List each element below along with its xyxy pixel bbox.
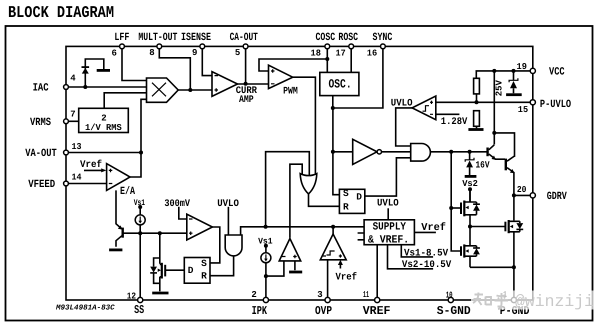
svg-text:3: 3 (317, 290, 322, 300)
svg-text:VFEED: VFEED (28, 179, 55, 191)
svg-text:14: 14 (72, 173, 83, 183)
transistor M2 n-channel (lower totem) (460, 246, 462, 256)
ground symbol under 25V zener (506, 93, 522, 96)
svg-text:1.28V: 1.28V (441, 117, 468, 128)
transistor T1 NPN driver (486, 148, 488, 157)
block: SUPPLY & VREF (364, 220, 414, 245)
wire: M1 source node to M3 gate (470, 226, 505, 228)
wire: IPK comparator minus input to pin rail (266, 261, 284, 276)
wire: divider mid to P-UVLO line (476, 94, 478, 102)
IC boundary box (66, 46, 533, 300)
pin 13 VA-OUT (64, 150, 69, 155)
zener DZ2 16V (cathode up) (466, 161, 473, 168)
wire: VRMS pin to 1/V RMS box (66, 120, 79, 122)
wire: latch2 output to AND gate input 3 (365, 158, 411, 196)
body diode of M4 (cathode down) (150, 267, 157, 273)
wire: M4 drain from SS rail (159, 233, 161, 258)
svg-text:5: 5 (235, 48, 240, 58)
node: junction gate-drive branch (449, 150, 453, 154)
svg-text:VCC: VCC (549, 66, 565, 78)
wire: gate drive vertical to M1 and M2 gates (451, 152, 461, 251)
wire: MULT-OUT pin 8 down, right, down to multiplier output node (159, 46, 190, 90)
comparator UVLO (points left) (412, 96, 436, 120)
wire: 25V zener from VCC rail (513, 71, 515, 93)
wire: ISENSE pin 9 down to CURR AMP inverting input (202, 46, 212, 75)
node: junction collector tee (492, 131, 496, 135)
inverter U2 (353, 139, 377, 164)
wire: UVLO minus input stub (436, 113, 460, 115)
wire: GDRV pin connection (514, 194, 533, 196)
svg-text:Vs2-10.5V: Vs2-10.5V (402, 260, 451, 271)
gate AND2 (driver enable) (411, 144, 431, 162)
wire: Vs2 rail callout from supply block (388, 245, 434, 269)
svg-text:VA-OUT: VA-OUT (25, 148, 57, 160)
node: junction GDRV (512, 193, 516, 197)
wire: OSC clock line down to latch2 S input (333, 108, 340, 195)
svg-text:ROSC: ROSC (338, 32, 358, 44)
body diode of M3 (cathode down) (516, 223, 523, 229)
svg-text:VRMS: VRMS (30, 117, 51, 129)
wire: Vref arrow into E/A plus input (84, 169, 103, 171)
svg-text:BLOCK DIAGRAM: BLOCK DIAGRAM (8, 3, 114, 22)
node: junction IPK input / Vs1 source (264, 274, 268, 278)
svg-text:S: S (343, 188, 349, 199)
svg-text:CA-OUT: CA-OUT (230, 32, 259, 44)
pin 11 VREF (375, 297, 380, 302)
wire: PWM output down to OR gate input 3 (293, 77, 316, 175)
body diode of M1 (cathode up) (473, 205, 480, 211)
node: junction M1 gate (449, 206, 453, 210)
latch FF2 (S R D) (339, 189, 364, 213)
diode D1 clamp on IAC (cathode up) (82, 68, 89, 74)
supply terminal Vs2 feed to M1 drain (468, 187, 472, 191)
wire: VA-OUT pin to E/A output node (66, 152, 141, 154)
wire: M1 gate stub (451, 207, 461, 209)
wire: UVLO output stub from supply block (387, 208, 389, 220)
wire: OSC bottom stub to sync line junction (332, 96, 334, 108)
wire: P-UVLO line from UVLO comparator plus input to pin 15 (436, 101, 533, 103)
wire: M2 source to P-GND line (470, 266, 514, 268)
wire: SYNC pin 16 down to OSC bottom line (333, 46, 383, 108)
svg-text:AMP: AMP (239, 95, 254, 106)
svg-text:300mV: 300mV (164, 199, 190, 210)
node: junction OSC line / inverter input (331, 150, 335, 154)
svg-text:ISENSE: ISENSE (181, 32, 211, 44)
svg-text:M93L4981A-83C: M93L4981A-83C (55, 303, 115, 312)
wire: current amp output to PWM comparator (238, 83, 269, 85)
svg-text:16V: 16V (476, 159, 490, 170)
svg-text:2: 2 (251, 290, 256, 300)
wire: COSC pin 18 down to OSC top (326, 46, 328, 72)
pin 18 COSC (325, 44, 330, 49)
wire: 300mV stub to comparator minus input (179, 207, 187, 219)
wire: PWM ramp input from COSC line (259, 59, 327, 71)
multiplier X1 (147, 78, 179, 102)
node: junction CA-OUT (244, 82, 248, 86)
wire: fault line from AND1 to SUPPLY block (241, 227, 365, 235)
pin 14 VFEED (64, 181, 69, 186)
svg-text:D: D (356, 191, 362, 202)
ground symbol under M4 (152, 292, 168, 295)
body diode of M2 (cathode up) (473, 248, 480, 254)
svg-text:SYNC: SYNC (373, 32, 393, 44)
svg-text:6: 6 (112, 49, 117, 59)
wire: E/A output up to multiplier input 4 (130, 99, 147, 177)
wire: VCC rail from pin 19 (476, 71, 533, 78)
latch FF1 (D S R) (184, 258, 210, 284)
wire: comparator output to latch1 S input (210, 227, 220, 263)
svg-text:R: R (201, 271, 207, 282)
svg-text:OVP: OVP (315, 304, 332, 318)
svg-text:SUPPLY: SUPPLY (373, 222, 407, 234)
wire: OR output to latch2 R input (309, 194, 340, 206)
gate OR1 (3-input, output down) (300, 174, 317, 194)
wire: M4 source to ground (159, 285, 161, 292)
node: junction M4 drain / SS rail (158, 231, 162, 235)
svg-text:S: S (201, 258, 207, 269)
wire: OVP comparator output up to fault line (332, 227, 334, 234)
wire: Vs1 rail callout from supply block (401, 245, 433, 257)
svg-text:S-GND: S-GND (437, 304, 471, 318)
svg-text:11: 11 (363, 290, 369, 300)
ground symbol at IAC clamp (97, 69, 110, 72)
node: junction multiplier output / MULT-OUT (188, 88, 192, 92)
pin 19 VCC (530, 68, 535, 73)
wire: AND1 output to latch1 R input (210, 256, 234, 276)
node: junction 16V zener branch (468, 150, 472, 154)
comparator IPK (points up) (279, 239, 301, 261)
wire: VFEED pin to E/A minus input (66, 183, 107, 185)
svg-text:R: R (343, 202, 349, 213)
op-amp E/A error amplifier (107, 164, 130, 191)
wire: UVLO comparator output to AND gate input 1 (396, 108, 415, 146)
wire: M1 source node down to M2 drain (469, 227, 471, 246)
comparator SS 300mV (187, 214, 213, 240)
wire: latch2 clock junction to inverter input (333, 151, 353, 153)
svg-text:D: D (188, 265, 194, 276)
wire: IPK comparator plus input to ground (294, 261, 296, 270)
svg-text:9: 9 (192, 48, 197, 58)
comparator OVP (points up) (320, 234, 346, 260)
pin 2 IPK (263, 297, 268, 302)
node: junction VCC / zener (512, 69, 516, 73)
svg-text:10: 10 (446, 290, 453, 300)
svg-text:Vs1-8.5V: Vs1-8.5V (404, 248, 448, 259)
transistor Q1 PNP soft-start clamp (116, 190, 122, 228)
svg-text:12: 12 (127, 292, 136, 302)
pin 16 SYNC (381, 44, 386, 49)
node: junction M2/M3 source to P-GND (512, 265, 516, 269)
transistor M4 soft-start discharge (gate right, diode left) (154, 258, 162, 285)
comparator PWM (269, 65, 293, 88)
pin 8 MULT-OUT (157, 44, 162, 49)
svg-text:Vref: Vref (336, 271, 358, 283)
wire: inverter output to AND gate input (382, 151, 411, 153)
wire: RMS box output up to multiplier input 3 (104, 93, 146, 109)
ground symbol under Q1 (109, 248, 122, 251)
op-amp CURR AMP (212, 72, 238, 97)
svg-text:COSC: COSC (316, 32, 336, 44)
pin 6 LFF (120, 44, 125, 49)
svg-text:IAC: IAC (33, 83, 49, 95)
pin 20 GDRV (530, 193, 535, 198)
resistor R2 UVLO divider bottom (474, 111, 480, 127)
transistor M1 p-channel (upper totem) (460, 203, 462, 215)
pin 15 P-UVLO (530, 100, 535, 105)
gate AND1 (UVLO fault, output down) (225, 235, 242, 256)
wire: sources down to P-GND pin (513, 267, 515, 300)
wire: supply block input stubs (358, 233, 365, 240)
pin 12 SS (138, 297, 143, 302)
svg-text:UVLO: UVLO (377, 199, 399, 210)
svg-text:17: 17 (336, 48, 346, 58)
svg-text:PWM: PWM (283, 87, 298, 98)
wire: VCC down to darlington collectors (494, 71, 514, 157)
wire: Vref arrow into OVP plus input (339, 264, 341, 269)
svg-text:VREF: VREF (363, 304, 391, 318)
node: junction VA-OUT / E/A output (139, 151, 143, 155)
wire: clamp diode branch at IAC (85, 59, 104, 87)
wire: R2 to ground (476, 126, 478, 128)
wire: LFF pin 6 down and right to multiplier input 1 (122, 46, 147, 80)
wire: OR gate input 1 from IPK comparator output (290, 164, 302, 238)
svg-text:MULT-OUT: MULT-OUT (138, 32, 177, 44)
pin 17 ROSC (349, 44, 354, 49)
node: junction IAC-diode (83, 85, 87, 89)
pin 4 IAC (64, 85, 69, 90)
svg-text:Vref: Vref (80, 159, 102, 171)
pin 3 OVP (325, 297, 330, 302)
wire: UVLO label stub to AND1 (227, 207, 229, 235)
svg-text:13: 13 (72, 142, 82, 152)
svg-text:GDRV: GDRV (547, 191, 567, 203)
wire: OR gate input 2 from fault line (266, 152, 310, 227)
svg-text:@winziji: @winziji (515, 292, 594, 311)
svg-text:15: 15 (518, 105, 528, 115)
svg-text:16: 16 (367, 48, 377, 58)
zener DZ1 25V (cathode up) (510, 81, 517, 88)
transistor M3 n-channel (pull-down) (504, 222, 506, 232)
ground symbol at IPK comparator (289, 271, 302, 274)
svg-text:LFF: LFF (114, 32, 129, 44)
pin 10 S-GND (448, 297, 453, 302)
svg-text:SS: SS (134, 303, 144, 317)
wire: AND2 output to driver base line (430, 151, 486, 153)
block: 1/V^2 RMS divider box (79, 108, 129, 132)
svg-text:& VREF.: & VREF. (368, 234, 409, 246)
node: junction divider / P-UVLO line (475, 100, 479, 104)
block: OSC oscillator (320, 72, 359, 95)
pin 9 ISENSE (200, 44, 205, 49)
wire: T2 emitter down to GDRV node and gate stage (513, 172, 515, 220)
wire: supply block to VREF pin 11 (376, 245, 378, 300)
watermark zhihu @winziji (471, 291, 597, 312)
pin 1 P-GND (511, 297, 516, 302)
wire: SS rail down to SS pin 12 (139, 233, 141, 300)
node: junction COSC / PWM ramp (325, 57, 329, 61)
svg-text:Vref: Vref (421, 222, 446, 234)
wire: 16V zener branch from drive line (469, 152, 471, 175)
svg-text:E/A: E/A (120, 186, 135, 198)
pin 7 VRMS (64, 119, 69, 124)
svg-text:18: 18 (311, 48, 321, 58)
svg-text:20: 20 (517, 185, 527, 195)
wire: multiplier output to current amp non-inverting input (178, 89, 212, 91)
node: junction OSC output / SYNC (331, 106, 335, 110)
wire: Vref output from supply block (414, 231, 436, 233)
wire: OVP minus input down to OVP pin 3 (327, 260, 329, 300)
wire: CA-OUT pin 5 down to current-amp output line (245, 46, 247, 83)
svg-text:1/V RMS: 1/V RMS (85, 123, 122, 133)
wire: soft-start rail SS pin to comparator plus input (123, 232, 186, 234)
svg-text:IPK: IPK (252, 304, 268, 318)
supply terminal Vs2 (zener side) (465, 175, 477, 178)
node: junction Vs1 source / SS rail (138, 231, 142, 235)
svg-text:19: 19 (517, 62, 527, 72)
pin 5 CA-OUT (243, 44, 248, 49)
ground symbol under divider (468, 128, 483, 131)
svg-text:UVLO: UVLO (391, 99, 413, 110)
wire: ROSC pin 17 down to OSC top (350, 46, 352, 72)
node: junction M1 source / M3 gate line (468, 225, 472, 229)
node: junction fault line / OR input2 (264, 225, 268, 229)
transistor T2 NPN driver (505, 159, 507, 171)
svg-text:P-UVLO: P-UVLO (540, 99, 572, 111)
svg-text:Vs2: Vs2 (462, 179, 478, 189)
svg-text:OSC.: OSC. (329, 78, 352, 92)
resistor R1 UVLO divider top (474, 78, 480, 94)
node: junction VCC / darlington collector (492, 69, 496, 73)
node: junction fault line / OVP output (331, 225, 335, 229)
wire: IAC pin to multiplier input 2 (66, 86, 147, 88)
svg-text:7: 7 (70, 110, 75, 120)
wire: latch1 D output to M4 gate (167, 269, 185, 271)
svg-text:25V: 25V (495, 80, 505, 97)
svg-text:8: 8 (149, 48, 154, 58)
svg-text:4: 4 (70, 74, 76, 84)
